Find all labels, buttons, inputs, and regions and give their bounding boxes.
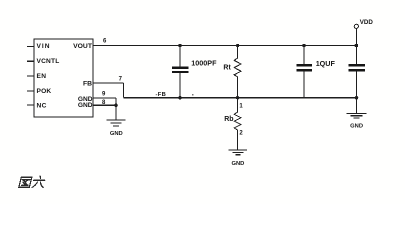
junction dot C1 bottom — [178, 96, 181, 99]
svg-text:VCNTL: VCNTL — [37, 58, 60, 65]
power symbol VDD — [354, 24, 358, 45]
ref label Rb — [224, 116, 233, 123]
value label 1000PF — [191, 59, 217, 68]
svg-text:GND: GND — [350, 124, 363, 130]
svg-text:VDD: VDD — [360, 19, 374, 26]
ground symbol right — [346, 114, 366, 119]
capacitor C3 bottom lead — [356, 72, 358, 98]
pin name GND (pin 9) — [78, 96, 93, 103]
pin name GND (pin 8) — [78, 102, 93, 109]
pin number 1 (Rb top) — [239, 104, 243, 110]
capacitor C1 1000PF plates — [172, 67, 189, 74]
pin number 2 (Rb bottom) — [239, 131, 243, 137]
wire GND pins join vertical — [115, 98, 117, 120]
capacitor C2 10UF plates — [296, 64, 312, 71]
pin number 6 — [103, 39, 107, 45]
resistor Rt — [234, 46, 241, 98]
junction dot Rt bottom — [236, 96, 239, 99]
capacitor C2 10UF bottom lead — [303, 72, 305, 98]
svg-text:GND: GND — [231, 161, 244, 167]
wire FB pin7 horizontal — [93, 82, 123, 84]
pin name NC — [37, 102, 47, 109]
svg-text:VIN: VIN — [37, 43, 51, 50]
svg-text:GND: GND — [78, 102, 93, 109]
pin VCNTL stub — [27, 60, 34, 62]
svg-text:6: 6 — [103, 39, 107, 45]
pin POK stub — [27, 90, 34, 92]
capacitor C2 10UF top lead — [303, 46, 305, 65]
capacitor C3 top lead — [356, 46, 358, 65]
ground label GND under IC — [110, 131, 123, 137]
capacitor C3 plates — [348, 64, 365, 71]
capacitor C1 1000PF bottom lead — [179, 73, 181, 98]
pin EN stub — [27, 75, 34, 77]
net label FB — [156, 92, 167, 98]
svg-text:Rb: Rb — [224, 116, 233, 123]
ground label GND under Rb — [231, 161, 244, 167]
value label 10UF — [316, 59, 336, 68]
svg-text:EN: EN — [37, 73, 47, 80]
pin name FB — [83, 80, 92, 87]
stray dot artifact — [192, 94, 194, 95]
pin NC stub — [27, 104, 34, 106]
pin name POK — [37, 88, 52, 95]
wire C3 bottom to ground — [356, 98, 358, 114]
pin number 8 — [102, 100, 106, 106]
ground label GND right — [350, 124, 363, 130]
junction dot Rt top — [236, 44, 239, 47]
wire FB pin7 vertical drop — [122, 83, 124, 98]
pin VIN stub — [27, 45, 34, 47]
svg-text:FB: FB — [83, 80, 92, 87]
svg-text:NC: NC — [37, 102, 47, 109]
pin name VOUT — [73, 43, 93, 50]
pin number 9 — [102, 92, 106, 98]
svg-text:-FB: -FB — [156, 92, 167, 98]
pin number 7 — [119, 76, 123, 82]
svg-text:POK: POK — [37, 88, 52, 95]
net label VDD — [360, 19, 374, 26]
wire GND pin9 — [93, 97, 116, 99]
svg-text:2: 2 — [239, 131, 243, 137]
junction dot C1 top — [178, 44, 181, 47]
svg-text:1QUF: 1QUF — [316, 59, 336, 68]
svg-text:1: 1 — [239, 104, 243, 110]
ref label Rt — [223, 64, 231, 71]
pin name EN — [37, 73, 47, 80]
wire VOUT top rail — [93, 45, 357, 47]
figure caption 图六 — [19, 176, 46, 187]
svg-text:Rt: Rt — [223, 64, 231, 71]
IC U1 body — [34, 39, 93, 117]
junction dot C2 top — [302, 44, 305, 47]
ground symbol under Rb — [229, 150, 248, 155]
capacitor C1 1000PF top lead — [179, 46, 181, 68]
junction dot GND pins — [114, 104, 118, 108]
pin name VCNTL — [37, 58, 60, 65]
svg-text:7: 7 — [119, 76, 123, 82]
junction dot VDD rail — [355, 44, 359, 48]
svg-text:9: 9 — [102, 92, 106, 98]
svg-text:VOUT: VOUT — [73, 43, 93, 50]
wire FB bottom rail — [123, 97, 356, 99]
wire GND pin8 — [93, 104, 116, 106]
junction dot C3 bottom / rail end — [355, 96, 359, 100]
ground symbol under IC — [107, 120, 126, 126]
svg-text:1000PF: 1000PF — [191, 59, 217, 68]
resistor Rb — [234, 98, 241, 150]
pin name VIN — [37, 43, 51, 50]
svg-text:GND: GND — [110, 131, 123, 137]
